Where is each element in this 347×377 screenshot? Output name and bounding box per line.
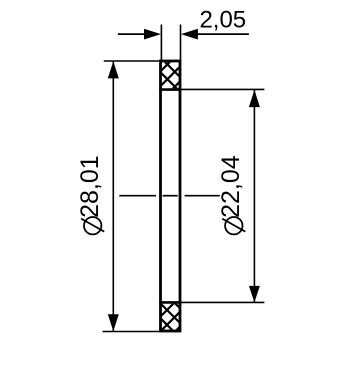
inner diameter 22,04 extension line top <box>181 88 264 90</box>
outer diameter 28,01 extension line top <box>104 60 160 62</box>
svg-text:28,01: 28,01 <box>76 155 104 218</box>
outer diameter arrow down <box>108 314 119 331</box>
cross-hatch top section <box>150 32 200 112</box>
svg-text:22,04: 22,04 <box>217 155 245 218</box>
outer diameter 28,01 dimension line <box>112 62 114 332</box>
cross-hatch bottom section <box>150 277 200 358</box>
inner diameter arrow up <box>249 90 260 107</box>
inner diameter 22,04 extension line bottom <box>181 301 264 303</box>
width dimension left arrow <box>144 29 161 40</box>
outer diameter label Ø28,01 <box>76 155 104 234</box>
inner diameter label Ø22,04 <box>217 155 245 234</box>
inner diameter 22,04 dimension line <box>253 90 255 302</box>
svg-text:2,05: 2,05 <box>199 6 246 33</box>
inner-diameter top edge <box>159 88 181 91</box>
ring cross-section outline <box>161 61 181 331</box>
width dimension 2,05 extension lines <box>160 25 162 61</box>
inner diameter arrow down <box>249 286 260 302</box>
width dimension 2,05 dimension line left tail <box>118 33 150 35</box>
outer diameter 28,01 extension line bottom <box>103 331 161 333</box>
inner-diameter bottom edge <box>159 301 181 304</box>
width dimension 2,05 dimension line right tail <box>194 33 249 35</box>
width dimension right arrow <box>181 29 198 40</box>
outer diameter arrow up <box>108 61 119 78</box>
center line (axis) <box>119 195 220 197</box>
